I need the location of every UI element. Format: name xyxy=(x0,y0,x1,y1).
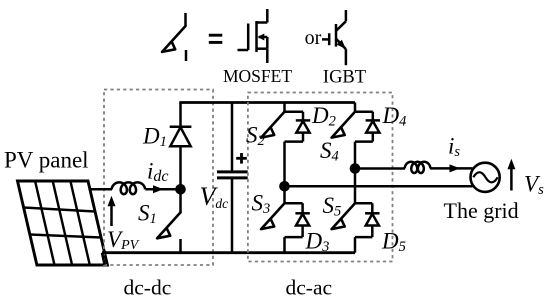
switch S5 xyxy=(332,203,355,229)
PV panel xyxy=(18,181,108,265)
D5 branch upper xyxy=(371,203,374,213)
D4 loop top wire xyxy=(355,110,373,113)
top rail xyxy=(179,101,355,104)
inductor L_s xyxy=(405,162,431,173)
svg-text:PV panel: PV panel xyxy=(4,148,89,173)
D3 branch upper xyxy=(301,203,304,213)
right leg wire through crossing xyxy=(354,169,357,204)
D2 loop top wire xyxy=(285,110,304,113)
ideal switch symbol (legend) xyxy=(162,13,186,61)
arrow i_dc xyxy=(153,185,164,193)
diode D2 xyxy=(296,120,310,132)
svg-text:MOSFET: MOSFET xyxy=(223,66,292,86)
D3 branch lower xyxy=(301,226,304,238)
svg-text:IGBT: IGBT xyxy=(323,68,366,88)
switch S2 xyxy=(261,112,284,138)
svg-text:dc-dc: dc-dc xyxy=(124,275,172,299)
node left leg midpoint xyxy=(279,181,290,192)
diode D1 xyxy=(170,103,192,147)
D4 loop bottom wire xyxy=(355,140,373,143)
node A (boost node) xyxy=(175,184,186,195)
arrow V_PV xyxy=(108,196,116,226)
svg-text:The grid: The grid xyxy=(444,198,519,223)
svg-text:or: or xyxy=(305,27,322,49)
IGBT emitter arrowhead xyxy=(337,40,349,52)
dc-dc dashed box xyxy=(104,90,213,266)
arrow V_s xyxy=(507,159,515,191)
diode D4 xyxy=(366,120,380,132)
right leg wire top xyxy=(354,103,357,112)
bottom rail xyxy=(102,251,355,254)
left leg bottom wire xyxy=(283,237,286,253)
D2 branch upper xyxy=(302,112,305,121)
right leg mid wire xyxy=(354,142,357,169)
D5 loop bottom wire xyxy=(355,236,372,239)
switch S1 xyxy=(157,189,180,253)
left leg mid wire xyxy=(283,142,286,187)
sine wave xyxy=(473,172,497,182)
D4 branch upper xyxy=(372,112,375,121)
AC source circle (the grid) xyxy=(471,163,500,192)
D4 branch lower xyxy=(372,133,375,142)
diode D5 xyxy=(365,213,379,225)
switch S3 xyxy=(261,203,284,229)
wire: node up to D1 xyxy=(179,146,182,189)
capacitor plus sign xyxy=(236,153,247,164)
svg-text:dc-ac: dc-ac xyxy=(286,275,333,299)
upper output wire xyxy=(355,167,405,170)
D5 branch lower xyxy=(371,226,374,238)
MOSFET symbol xyxy=(238,9,268,63)
left leg stub below node xyxy=(283,186,286,203)
arrow i_s xyxy=(450,164,461,172)
MOSFET body arrowhead xyxy=(257,34,264,41)
IGBT symbol xyxy=(322,10,346,65)
wire: panel edge to bottom rail xyxy=(102,253,105,265)
inductor L_dc xyxy=(112,182,146,194)
D2 loop bottom wire xyxy=(285,140,304,143)
D3 loop top wire xyxy=(285,202,303,205)
right leg bottom wire xyxy=(354,237,357,253)
node right leg midpoint xyxy=(350,163,361,174)
wire: inductor to node xyxy=(145,188,180,191)
wire: PV top to inductor xyxy=(90,188,113,191)
D3 loop bottom wire xyxy=(285,236,303,239)
lower output wire xyxy=(285,185,473,188)
D2 branch lower xyxy=(302,133,305,142)
diode D3 xyxy=(295,213,309,225)
D5 loop top wire xyxy=(355,202,372,205)
dc-ac dashed box xyxy=(248,93,393,262)
equals sign xyxy=(209,35,223,42)
left leg wire top xyxy=(283,103,286,112)
capacitor C (V_dc) xyxy=(217,103,248,253)
wire: inductor to grid xyxy=(430,167,473,170)
switch S4 xyxy=(332,112,355,138)
